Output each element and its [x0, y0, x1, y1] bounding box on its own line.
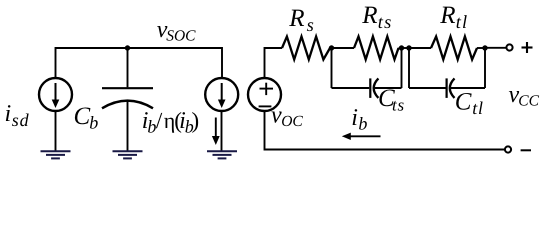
resistor R_s — [282, 37, 330, 60]
wire RC1 bottom right — [374, 87, 401, 89]
current arrow i_b on bottom — [342, 133, 381, 140]
resistor R_ts — [354, 37, 399, 60]
wire dependent source to ground — [221, 111, 223, 152]
svg-text:Cb: Cb — [74, 103, 99, 133]
wire v_OC top to R_s — [265, 48, 283, 79]
wire RC2 bottom right — [450, 87, 485, 89]
wire node to R_tl — [409, 47, 431, 49]
dependent current source i_b/eta(i_b) — [205, 78, 238, 111]
ground (under dependent source) — [207, 151, 237, 158]
svg-text:vCC: vCC — [509, 82, 540, 110]
svg-text:Rtl: Rtl — [439, 2, 468, 33]
svg-text:Cts: Cts — [378, 85, 405, 115]
capacitor C_tl — [447, 78, 455, 98]
node dot right of R_ts network — [399, 45, 404, 50]
minus sign output — [521, 149, 531, 151]
current direction arrow beside wire — [212, 118, 220, 146]
wire R_ts to node — [399, 47, 410, 49]
svg-text:Rts: Rts — [361, 2, 392, 33]
wire top rail v_SOC (left circuit) — [56, 48, 223, 79]
terminal - (open circle) — [505, 146, 511, 152]
wire C_b to ground — [127, 101, 129, 151]
plus sign output — [522, 42, 533, 53]
wire RC1 left branch down — [331, 48, 333, 88]
wire RC2 right branch up — [484, 48, 486, 88]
resistor R_tl — [431, 37, 477, 60]
current source i_sd — [39, 78, 72, 111]
wire RC2 left branch down — [408, 48, 410, 88]
svg-text:Ctl: Ctl — [455, 89, 484, 119]
ground (under C_b) — [113, 151, 143, 158]
svg-text:vOC: vOC — [271, 103, 303, 131]
terminal + (open circle) — [506, 44, 512, 50]
wire node to + terminal — [485, 47, 507, 49]
wire capacitor branch down from rail — [127, 48, 129, 87]
wire R_tl to node — [477, 47, 485, 49]
wire RC2 bottom left — [409, 87, 446, 89]
wire i_sd source to ground — [55, 111, 57, 152]
svg-text:ib/η(ib): ib/η(ib) — [142, 108, 199, 137]
capacitor C_ts — [370, 78, 378, 98]
svg-text:ib: ib — [351, 105, 367, 134]
svg-text:vSOC: vSOC — [157, 17, 196, 45]
ground (left, under i_sd) — [41, 151, 71, 158]
node dot left of R_tl network — [406, 45, 411, 50]
wire v_OC bottom rail — [265, 111, 505, 150]
svg-text:isd: isd — [5, 101, 30, 130]
voltage source v_OC — [248, 78, 281, 111]
node dot left of R_ts network — [329, 45, 334, 50]
wire node to R_ts — [332, 47, 355, 49]
svg-text:Rs: Rs — [288, 5, 314, 36]
node junction dot on v_SOC rail — [125, 45, 130, 50]
wire RC1 right branch up — [401, 48, 403, 88]
wire RC1 bottom left — [332, 87, 370, 89]
capacitor C_b — [102, 88, 153, 108]
node dot right of R_tl network — [482, 45, 487, 50]
